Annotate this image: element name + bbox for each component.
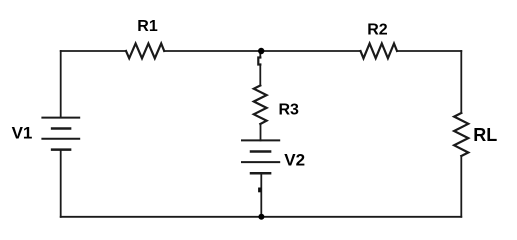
- wire left vertical lower: [60, 150, 62, 217]
- wire top-left horizontal segment: [61, 50, 126, 52]
- wire node A to R2: [261, 50, 361, 52]
- wire R3 to V2: [260, 124, 262, 140]
- wire down to R3: [259, 65, 261, 86]
- wire right vertical upper: [460, 51, 462, 113]
- wire right vertical lower: [460, 156, 462, 217]
- battery V1: [42, 118, 79, 150]
- wire R2 to top-right corner: [397, 50, 461, 52]
- resistor R1: [126, 44, 164, 59]
- battery V2: [242, 140, 279, 173]
- node A junction dot: [258, 48, 264, 54]
- resistor R2: [361, 44, 398, 59]
- svg-text:R3: R3: [279, 102, 300, 119]
- wire V2 down to node B: [260, 173, 262, 217]
- svg-text:V1: V1: [12, 124, 33, 143]
- resistor R3: [254, 86, 267, 125]
- wire R1 to node A: [164, 50, 261, 52]
- svg-text:R1: R1: [137, 18, 158, 35]
- wire bottom horizontal: [61, 216, 462, 218]
- wire jog above node B: [258, 188, 261, 193]
- wire left vertical upper: [60, 51, 62, 118]
- wire jog below node A: [258, 58, 260, 65]
- resistor RL: [454, 113, 468, 156]
- svg-text:R2: R2: [367, 22, 388, 39]
- svg-text:RL: RL: [473, 125, 497, 145]
- wire node A stub down: [259, 51, 261, 58]
- node B junction dot: [258, 214, 264, 220]
- svg-text:V2: V2: [284, 150, 305, 169]
